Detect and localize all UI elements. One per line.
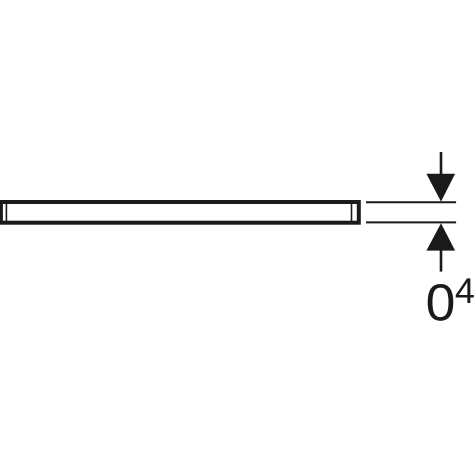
dimension arrow top (pointing down) — [426, 174, 455, 202]
panel left edge line — [5, 202, 7, 223]
dimension extension line bottom — [366, 221, 456, 223]
panel outline (side view of thin plate) — [1, 202, 359, 223]
panel right edge line — [351, 202, 353, 223]
dimension line bottom — [440, 249, 443, 272]
dimension extension line top — [366, 201, 456, 203]
dimension line top — [440, 152, 443, 176]
dimension text superscript 4 — [456, 278, 474, 303]
dimension text 0 — [428, 284, 454, 321]
dimension arrow bottom (pointing up) — [426, 223, 455, 250]
